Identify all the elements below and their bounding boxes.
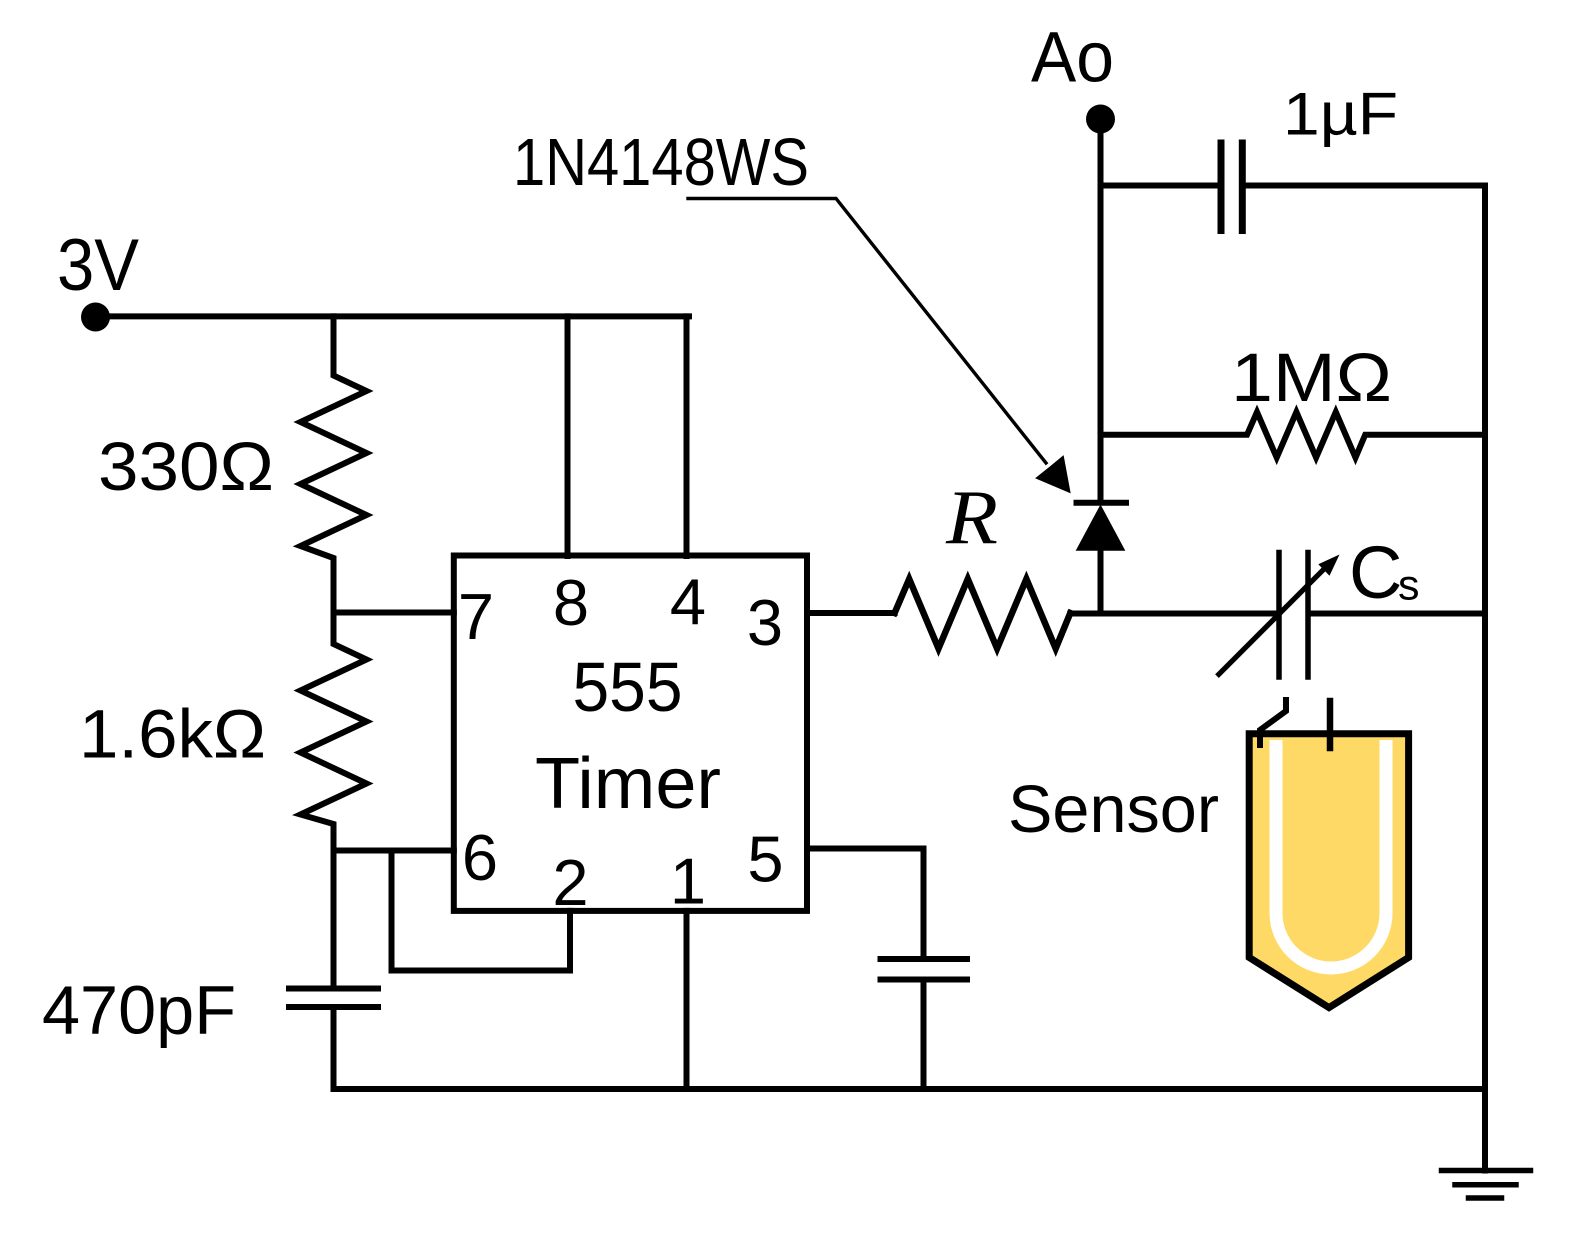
wire rail to pin 8 (565, 316, 571, 556)
wire pin 7 (334, 610, 454, 616)
wire 3V rail (96, 313, 690, 319)
sensor electrode lead right (1327, 701, 1334, 748)
svg-text:330Ω: 330Ω (98, 428, 274, 505)
svg-text:s: s (1398, 562, 1420, 610)
wire pin 5 (807, 849, 924, 957)
svg-text:555: 555 (573, 648, 683, 726)
svg-text:1N4148WS: 1N4148WS (513, 125, 809, 200)
svg-text:Ao: Ao (1031, 19, 1114, 98)
node Ao (1086, 105, 1115, 134)
wire pin 3 output (807, 610, 895, 616)
sensor white U electrode (1276, 740, 1386, 968)
svg-text:470pF: 470pF (42, 972, 236, 1049)
resistor R3 1Mohm (1101, 412, 1486, 458)
capacitor Cs variable sensor cap (1276, 553, 1282, 678)
capacitor C2 control bypass (881, 956, 968, 962)
ground (1442, 1168, 1531, 1174)
svg-text:2: 2 (552, 846, 588, 919)
wire output node to Cs (1070, 611, 1276, 617)
svg-text:3: 3 (747, 586, 783, 659)
wire right rail (1482, 186, 1488, 1171)
wire pin 2 tie to pin 6 net (392, 851, 571, 971)
svg-text:1: 1 (670, 845, 706, 918)
wire ground bus bottom (334, 1086, 1486, 1092)
wire Ao vertical (1098, 119, 1104, 500)
wire rail to pin 4 (684, 316, 690, 556)
svg-text:R: R (945, 474, 998, 560)
svg-text:1MΩ: 1MΩ (1231, 339, 1392, 416)
label leader 1N4148WS arrow (688, 199, 1046, 464)
resistor R2 1.6kohm (301, 613, 367, 851)
sensor probe body (1249, 734, 1408, 1008)
node 3V supply (81, 303, 110, 332)
capacitor C3 1uF (1101, 183, 1218, 189)
wire pin 6 (334, 848, 454, 854)
IC U1 555 timer body (454, 556, 807, 911)
svg-text:C: C (1349, 531, 1402, 614)
wire pin 1 (684, 911, 690, 1089)
svg-text:Timer: Timer (535, 744, 721, 824)
svg-text:Sensor: Sensor (1008, 772, 1219, 847)
capacitor C1 470pF leads and plates (331, 851, 337, 986)
svg-text:3V: 3V (57, 225, 139, 306)
svg-text:6: 6 (462, 821, 498, 894)
resistor R timing (895, 579, 1071, 649)
diode D1 1N4148WS (1077, 500, 1127, 506)
svg-text:4: 4 (670, 565, 706, 638)
resistor R1 330ohm (301, 316, 367, 613)
svg-text:8: 8 (553, 566, 589, 639)
arrow across Cs (1219, 562, 1331, 674)
svg-text:1.6kΩ: 1.6kΩ (79, 696, 266, 773)
svg-text:5: 5 (747, 823, 783, 896)
sensor electrode lead left (1260, 700, 1286, 745)
svg-text:7: 7 (458, 580, 494, 653)
svg-text:1µF: 1µF (1283, 81, 1398, 148)
